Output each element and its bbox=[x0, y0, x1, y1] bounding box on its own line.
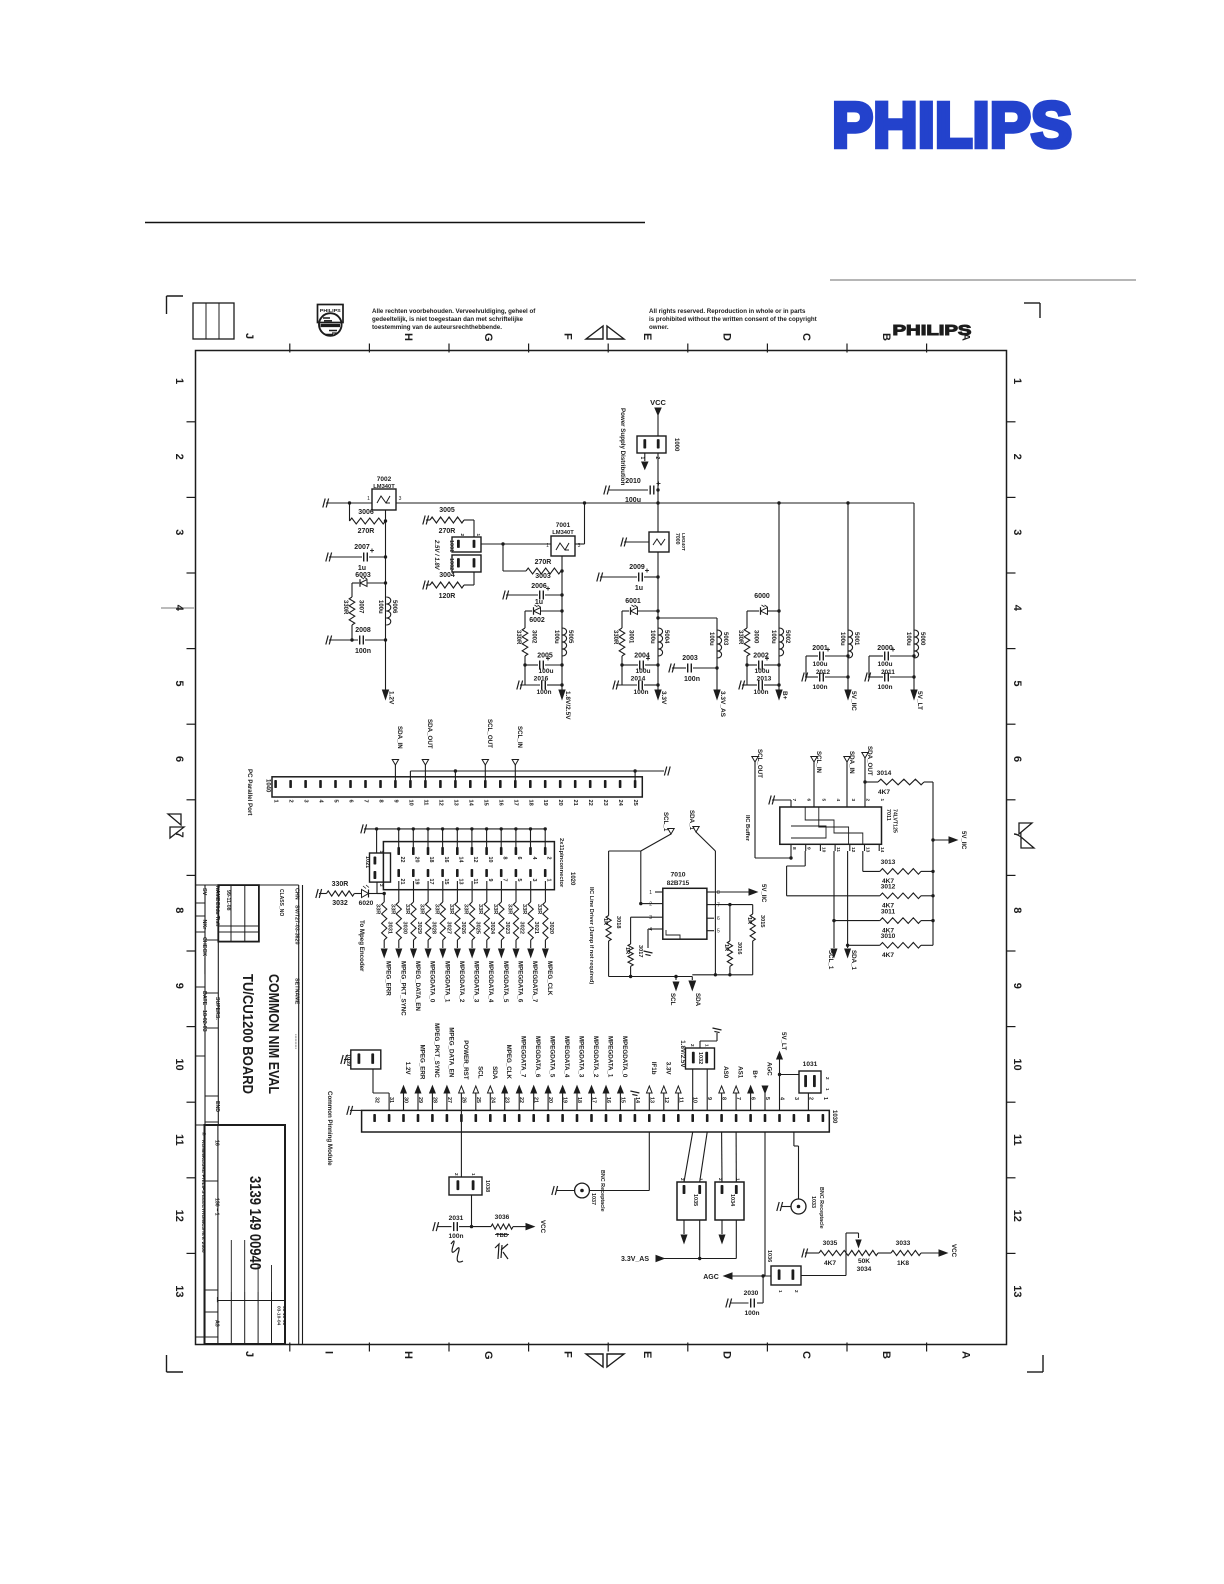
wire pin3 to 3017 bbox=[631, 917, 655, 944]
resistor 3021 bbox=[521, 881, 539, 940]
svg-text:7001: 7001 bbox=[556, 522, 571, 529]
svg-text:12: 12 bbox=[850, 847, 856, 853]
wire VCC column bbox=[656, 453, 659, 532]
svg-text:6001: 6001 bbox=[625, 598, 641, 605]
resistor 3012 bbox=[787, 884, 933, 910]
svg-text:1: 1 bbox=[545, 879, 551, 882]
svg-text:1u: 1u bbox=[358, 565, 366, 572]
regulator 7002 bbox=[367, 476, 402, 510]
svg-text:7010: 7010 bbox=[670, 872, 685, 879]
title block outline bbox=[196, 885, 303, 1345]
resistor 3018 bbox=[602, 916, 621, 977]
label PC Parallel Port bbox=[246, 769, 253, 815]
svg-text:MPEGDATA_2: MPEGDATA_2 bbox=[592, 1036, 599, 1078]
svg-text:NKr: NKr bbox=[201, 920, 207, 931]
svg-text:1: 1 bbox=[705, 1044, 710, 1047]
resistor 3022 bbox=[507, 881, 525, 940]
fiducial bottom-right bbox=[1027, 1355, 1043, 1372]
svg-text:1: 1 bbox=[273, 800, 279, 803]
svg-text:7: 7 bbox=[717, 903, 720, 909]
svg-text:8: 8 bbox=[173, 907, 185, 913]
svg-text:6: 6 bbox=[806, 799, 812, 802]
svg-text:SDA: SDA bbox=[694, 993, 701, 1007]
svg-text:18: 18 bbox=[527, 800, 533, 806]
node 3.3V output bbox=[655, 690, 667, 705]
svg-text:3001: 3001 bbox=[628, 630, 634, 644]
svg-text:100u: 100u bbox=[377, 600, 383, 614]
svg-text:MPEG_DATA_EN: MPEG_DATA_EN bbox=[414, 961, 421, 1011]
svg-text:1u: 1u bbox=[635, 585, 643, 592]
svg-text:1.8V/2.5V: 1.8V/2.5V bbox=[564, 691, 571, 720]
label CHN number bbox=[294, 888, 300, 945]
svg-text:3: 3 bbox=[850, 799, 856, 802]
svg-text:MPEG_CLK: MPEG_CLK bbox=[546, 961, 553, 996]
svg-text:1R: 1R bbox=[624, 947, 630, 954]
node 5V_LT pin4 bbox=[777, 1032, 787, 1110]
node MPEGDATA_6 bbox=[513, 940, 523, 1003]
node SCL_1 flag bbox=[639, 812, 674, 905]
svg-text:33R: 33R bbox=[536, 904, 542, 914]
inductor 5002 bbox=[770, 628, 790, 656]
inductor 5001 bbox=[839, 630, 859, 658]
handwritten 1K2 bbox=[495, 1244, 508, 1259]
wire pin13 to BNC 1037 bbox=[589, 1132, 649, 1191]
svg-text:2: 2 bbox=[173, 454, 185, 460]
svg-text:2005: 2005 bbox=[537, 653, 553, 660]
svg-text:33R: 33R bbox=[521, 904, 527, 914]
node AS1 pin7 bbox=[733, 1066, 743, 1110]
svg-text:MPEGDATA_4: MPEGDATA_4 bbox=[563, 1036, 570, 1078]
ground rail above 1020 bbox=[361, 824, 545, 833]
svg-text:1R: 1R bbox=[723, 944, 729, 951]
svg-text:8: 8 bbox=[501, 857, 507, 860]
svg-text:3017: 3017 bbox=[637, 945, 643, 957]
svg-text:2002: 2002 bbox=[753, 653, 769, 660]
svg-text:100n: 100n bbox=[355, 648, 371, 655]
svg-text:1031: 1031 bbox=[803, 1061, 818, 1068]
border row numbers left bbox=[173, 378, 185, 1297]
wire pin13 to 3013 bbox=[862, 851, 864, 871]
fiducial top-left bbox=[167, 296, 184, 314]
node VCC bbox=[650, 398, 666, 436]
svg-text:4: 4 bbox=[649, 927, 652, 933]
fiducial bottom-left bbox=[167, 1355, 184, 1372]
wire 5V_IIC column bbox=[846, 501, 849, 690]
svg-text:5004: 5004 bbox=[663, 630, 669, 644]
svg-text:10: 10 bbox=[407, 800, 413, 806]
svg-text:F: F bbox=[561, 1351, 573, 1358]
resistor 3026 bbox=[448, 881, 466, 940]
svg-text:3021: 3021 bbox=[533, 922, 539, 934]
svg-text:33R: 33R bbox=[375, 904, 381, 914]
svg-text:DATE: DATE bbox=[201, 991, 207, 1006]
svg-text:MPEGDATA_0: MPEGDATA_0 bbox=[621, 1036, 628, 1078]
resistor 3002 bbox=[515, 628, 537, 685]
svg-text:SCL_IN: SCL_IN bbox=[516, 726, 523, 749]
node 5V_IIC output bbox=[845, 690, 857, 711]
node AGC pin5 bbox=[762, 1062, 772, 1110]
svg-text:33R: 33R bbox=[389, 904, 395, 914]
svg-text:END: END bbox=[214, 1101, 220, 1112]
svg-text:3010: 3010 bbox=[881, 933, 896, 940]
svg-text:7002: 7002 bbox=[377, 476, 392, 483]
revision triangles right border bbox=[1019, 823, 1034, 848]
svg-text:D: D bbox=[721, 1351, 733, 1359]
node MPEGDATA_5 pin20 bbox=[545, 1036, 555, 1110]
svg-text:PHILIPS: PHILIPS bbox=[832, 89, 1072, 161]
svg-text:2003: 2003 bbox=[682, 655, 698, 662]
svg-text:SDA_1: SDA_1 bbox=[850, 950, 857, 971]
svg-text:3: 3 bbox=[649, 915, 652, 921]
svg-text:3013: 3013 bbox=[881, 859, 896, 866]
svg-text:I: I bbox=[323, 1351, 335, 1354]
svg-text:5: 5 bbox=[516, 879, 522, 882]
copyright Koninklijke bbox=[200, 1132, 207, 1253]
svg-text:1: 1 bbox=[699, 1178, 704, 1181]
svg-text:SDA_OUT: SDA_OUT bbox=[426, 719, 433, 749]
svg-text:5003: 5003 bbox=[722, 632, 728, 646]
node MPEGDATA_7 bbox=[528, 940, 538, 1003]
svg-text:3: 3 bbox=[173, 529, 185, 535]
node SDA_IN parallel bbox=[392, 726, 403, 780]
capacitor 2000 bbox=[869, 645, 914, 668]
connector 1034 bbox=[715, 1132, 744, 1220]
schematic border frame bbox=[196, 351, 1007, 1345]
node 1.8V/2.5V pin11 bbox=[676, 1040, 686, 1110]
svg-text:SCL_OUT: SCL_OUT bbox=[486, 719, 493, 748]
connector 1020 bbox=[383, 842, 554, 890]
svg-text:G: G bbox=[482, 333, 494, 342]
svg-text:22: 22 bbox=[399, 857, 405, 863]
svg-text:3028: 3028 bbox=[431, 922, 437, 934]
svg-text:6000: 6000 bbox=[754, 593, 770, 600]
svg-text:11: 11 bbox=[472, 879, 478, 885]
svg-text:SCL_1: SCL_1 bbox=[827, 950, 834, 970]
svg-text:1R: 1R bbox=[746, 917, 752, 924]
svg-text:Common Pinning Module: Common Pinning Module bbox=[326, 1091, 333, 1166]
svg-text:5002: 5002 bbox=[784, 630, 790, 644]
svg-text:3.3V_AS: 3.3V_AS bbox=[621, 1256, 649, 1263]
svg-text:MPEGDATA_2: MPEGDATA_2 bbox=[458, 961, 465, 1003]
capacitor 2016 bbox=[517, 676, 562, 697]
svg-text:20: 20 bbox=[414, 857, 420, 863]
svg-text:6: 6 bbox=[1011, 756, 1023, 762]
wire rail drops to 1020 top pins bbox=[375, 827, 547, 853]
svg-text:13: 13 bbox=[1011, 1285, 1023, 1297]
node SCL_1 down bbox=[827, 949, 837, 970]
svg-text:5V_LT: 5V_LT bbox=[916, 691, 923, 710]
resistor 3017 bbox=[624, 944, 643, 977]
svg-text:SCL_OUT: SCL_OUT bbox=[756, 749, 763, 778]
svg-text:3.3V: 3.3V bbox=[660, 691, 667, 705]
svg-text:5V_IIC: 5V_IIC bbox=[850, 691, 857, 711]
svg-text:100u: 100u bbox=[770, 630, 776, 644]
capacitor 2006 bbox=[503, 583, 562, 606]
svg-text:4: 4 bbox=[173, 605, 185, 612]
node SDA pin24 bbox=[488, 1066, 498, 1110]
svg-text:18-02-03: 18-02-03 bbox=[201, 1010, 207, 1032]
svg-text:———: ——— bbox=[201, 958, 207, 975]
svg-text:10: 10 bbox=[820, 847, 826, 853]
svg-text:2009: 2009 bbox=[629, 564, 645, 571]
svg-text:2: 2 bbox=[654, 457, 660, 460]
ground parallel port bbox=[664, 767, 670, 776]
connector 1030 bbox=[362, 1097, 837, 1132]
svg-text:19: 19 bbox=[542, 800, 548, 806]
svg-text:BNC Receptacle: BNC Receptacle bbox=[818, 1187, 824, 1229]
svg-text:2x11pinconnector: 2x11pinconnector bbox=[558, 838, 564, 888]
svg-text:13: 13 bbox=[173, 1285, 185, 1297]
title text COMMON NIM EVAL bbox=[265, 974, 281, 1094]
svg-text:11: 11 bbox=[835, 847, 841, 852]
svg-text:5: 5 bbox=[333, 800, 339, 803]
capacitor 2030 bbox=[730, 1276, 763, 1317]
svg-text:2010: 2010 bbox=[625, 478, 641, 485]
svg-text:33R: 33R bbox=[404, 904, 410, 914]
svg-text:21: 21 bbox=[399, 879, 405, 885]
svg-text:2012: 2012 bbox=[816, 669, 831, 676]
svg-text:3004: 3004 bbox=[439, 572, 455, 579]
node 1.2V output bbox=[383, 690, 395, 705]
svg-text:MPEG_ERR: MPEG_ERR bbox=[419, 1045, 426, 1080]
bnc receptacle 1033 bbox=[781, 1187, 824, 1229]
Philips shield emblem bbox=[318, 305, 344, 336]
wire 7001 input from bus bbox=[575, 501, 586, 544]
faint gray line top right bbox=[830, 279, 1136, 281]
svg-text:100n: 100n bbox=[753, 689, 768, 696]
wire 5V_LT column bbox=[912, 503, 915, 690]
copyright text dutch bbox=[372, 308, 536, 331]
svg-text:SV: SV bbox=[201, 888, 207, 896]
svg-text:3034: 3034 bbox=[857, 1266, 872, 1273]
svg-text:3018: 3018 bbox=[615, 916, 621, 928]
svg-text:MPEGDATA_0: MPEGDATA_0 bbox=[429, 961, 436, 1003]
svg-text:PHILIPS: PHILIPS bbox=[893, 322, 972, 339]
svg-text:50K: 50K bbox=[858, 1258, 870, 1265]
svg-text:6: 6 bbox=[348, 800, 354, 803]
svg-text:5: 5 bbox=[1011, 680, 1023, 686]
wire AGC from pin5 bbox=[764, 1132, 766, 1276]
svg-text:1: 1 bbox=[879, 799, 885, 802]
svg-text:VCC: VCC bbox=[950, 1244, 957, 1258]
svg-text:1035: 1035 bbox=[692, 1194, 698, 1206]
Philips wordmark small header bbox=[893, 322, 972, 339]
svg-text:SDA: SDA bbox=[491, 1066, 498, 1080]
revision table bottom bbox=[218, 1240, 287, 1344]
svg-text:3033: 3033 bbox=[896, 1240, 911, 1247]
svg-text:IF1b: IF1b bbox=[650, 1062, 657, 1075]
svg-text:20: 20 bbox=[557, 800, 563, 806]
svg-text:AS0: AS0 bbox=[722, 1066, 729, 1079]
svg-text:2: 2 bbox=[288, 800, 294, 803]
node SDA_OUT parallel bbox=[422, 719, 433, 780]
svg-text:100u: 100u bbox=[635, 668, 650, 675]
svg-text:3005: 3005 bbox=[439, 507, 455, 514]
wire pin2 to 3018 bbox=[609, 851, 655, 916]
svg-text:130 − 1: 130 − 1 bbox=[214, 1198, 220, 1216]
node B+ pin6 bbox=[748, 1070, 758, 1110]
capacitor 2008 bbox=[326, 627, 386, 655]
svg-text:8: 8 bbox=[717, 890, 720, 896]
svg-text:33R: 33R bbox=[433, 904, 439, 914]
text 3139 149 00940 bbox=[246, 1176, 263, 1270]
node POWER_RST pin26 bbox=[459, 1040, 469, 1110]
wire 4K7 rail bbox=[931, 782, 934, 945]
svg-text:1040: 1040 bbox=[265, 779, 271, 793]
ground 1030 pin14 bbox=[630, 1091, 639, 1110]
svg-text:3035: 3035 bbox=[823, 1240, 838, 1247]
svg-text:03-10-04: 03-10-04 bbox=[276, 1306, 282, 1326]
svg-text:3.3V_AS: 3.3V_AS bbox=[719, 691, 726, 718]
node MPEGDATA_6 pin21 bbox=[531, 1036, 541, 1110]
svg-text:5V_IIC: 5V_IIC bbox=[760, 884, 766, 903]
svg-text:SV/T27-03-3620: SV/T27-03-3620 bbox=[294, 905, 300, 945]
connector 1035 bbox=[677, 1132, 707, 1220]
node SCL down bbox=[669, 977, 679, 1006]
node MPEGDATA_1 bbox=[440, 940, 450, 1003]
capacitor 2005 bbox=[525, 653, 562, 676]
resistor 3030 bbox=[389, 881, 407, 940]
wire SCL_1 net vertical bbox=[832, 851, 835, 948]
svg-text:2000: 2000 bbox=[877, 645, 893, 652]
svg-text:3031: 3031 bbox=[387, 922, 393, 934]
resistor 3014 bbox=[865, 770, 933, 796]
node 3.3V pin12 bbox=[661, 1062, 671, 1111]
svg-text:4: 4 bbox=[531, 857, 537, 860]
svg-text:2001: 2001 bbox=[812, 645, 828, 652]
svg-text:3030: 3030 bbox=[401, 922, 407, 934]
svg-text:F: F bbox=[561, 333, 573, 340]
svg-text:2004: 2004 bbox=[634, 653, 650, 660]
node MPEGDATA_3 bbox=[469, 940, 479, 1003]
svg-text:MPEGDATA_1: MPEGDATA_1 bbox=[607, 1036, 614, 1078]
resistor 3000 bbox=[737, 628, 759, 685]
svg-text:3029: 3029 bbox=[416, 922, 422, 934]
svg-text:14: 14 bbox=[879, 847, 885, 853]
wire main supply bus bbox=[326, 502, 914, 504]
svg-text:22: 22 bbox=[587, 800, 593, 806]
node SCL pin25 bbox=[473, 1066, 483, 1110]
svg-text:3011: 3011 bbox=[881, 908, 896, 915]
svg-text:3025: 3025 bbox=[475, 922, 481, 934]
connector 1038 bbox=[449, 1173, 490, 1195]
resistor 3029 bbox=[404, 881, 422, 940]
svg-text:COMMON NIM EVAL: COMMON NIM EVAL bbox=[265, 974, 281, 1094]
ic 7011 74LVT125 bbox=[780, 799, 898, 853]
svg-text:100u: 100u bbox=[812, 661, 827, 668]
svg-text:MPEG_ERR: MPEG_ERR bbox=[385, 961, 392, 996]
svg-text:B: B bbox=[880, 1351, 892, 1359]
node SDA_OUT buffer bbox=[862, 746, 873, 807]
svg-text:11: 11 bbox=[1011, 1134, 1023, 1146]
led 6020 bbox=[359, 885, 386, 907]
svg-text:5V_LT: 5V_LT bbox=[780, 1032, 787, 1050]
svg-text:5V_IIC: 5V_IIC bbox=[960, 831, 966, 850]
svg-text:3012: 3012 bbox=[881, 884, 896, 891]
zener 6003 bbox=[352, 572, 386, 597]
svg-text:B+: B+ bbox=[751, 1070, 758, 1078]
svg-text:16: 16 bbox=[497, 800, 503, 806]
svg-text:23: 23 bbox=[602, 800, 608, 806]
svg-text:SCL: SCL bbox=[476, 1066, 483, 1079]
node SDA down bbox=[689, 977, 701, 1007]
svg-text:C: C bbox=[800, 333, 812, 341]
handwritten note uF bbox=[451, 1241, 463, 1262]
svg-text:270R: 270R bbox=[358, 528, 375, 535]
node 5V_IIC buffer bbox=[933, 831, 966, 850]
svg-text:B+: B+ bbox=[781, 691, 788, 700]
svg-text:1.8V/2.5V: 1.8V/2.5V bbox=[679, 1040, 686, 1068]
wire-end 2030 bbox=[726, 1299, 732, 1308]
svg-text:TU/CU1200 BOARD: TU/CU1200 BOARD bbox=[239, 974, 255, 1094]
svg-text:3: 3 bbox=[793, 1097, 799, 1100]
svg-text:330R: 330R bbox=[332, 881, 349, 888]
svg-text:3: 3 bbox=[531, 879, 537, 882]
svg-text:1: 1 bbox=[173, 378, 185, 384]
svg-text:1: 1 bbox=[649, 890, 652, 896]
svg-text:MPEGDATA_3: MPEGDATA_3 bbox=[578, 1036, 585, 1078]
svg-text:4K7: 4K7 bbox=[882, 952, 894, 959]
svg-text:11: 11 bbox=[173, 1134, 185, 1146]
node MPEGDATA_3 pin18 bbox=[574, 1036, 584, 1110]
node MPEGDATA_1 pin16 bbox=[603, 1036, 613, 1110]
capacitor 2004 bbox=[622, 653, 658, 676]
node MPEGDATA_4 bbox=[484, 940, 494, 1003]
svg-text:3026: 3026 bbox=[460, 922, 466, 934]
node 1.2V pin30 bbox=[401, 1062, 411, 1111]
svg-text:..........: .......... bbox=[294, 1034, 300, 1049]
svg-text:6020: 6020 bbox=[359, 900, 374, 907]
svg-text:2: 2 bbox=[865, 799, 871, 802]
svg-text:SDA_1: SDA_1 bbox=[688, 810, 695, 831]
svg-text:100u: 100u bbox=[754, 668, 769, 675]
inductor 5004 bbox=[649, 628, 669, 656]
svg-text:1032: 1032 bbox=[697, 1052, 703, 1064]
svg-text:MPEGDATA_4: MPEGDATA_4 bbox=[487, 961, 494, 1003]
node MPEG_PKT_SYNC pin28 bbox=[430, 1023, 440, 1110]
svg-text:VCC: VCC bbox=[539, 1220, 546, 1234]
capacitor 2012 bbox=[802, 656, 848, 691]
svg-text:3007: 3007 bbox=[358, 600, 364, 614]
node AGC bottom bbox=[703, 1273, 771, 1281]
label To Mpeg Encoder bbox=[358, 920, 365, 972]
svg-text:Alle rechten voorbehouden. Ver: Alle rechten voorbehouden. Verveelvuldig… bbox=[372, 308, 536, 315]
codenumber cells bbox=[205, 1140, 220, 1327]
resistor 3010 bbox=[848, 933, 933, 959]
connector 1039 bbox=[345, 1050, 381, 1069]
svg-text:1.2V: 1.2V bbox=[388, 691, 395, 705]
svg-text:POWER_RST: POWER_RST bbox=[462, 1040, 469, 1079]
svg-text:2: 2 bbox=[545, 857, 551, 860]
svg-text:1001: 1001 bbox=[448, 540, 454, 552]
capacitor 2009 bbox=[597, 564, 658, 592]
svg-text:4: 4 bbox=[1011, 605, 1023, 612]
svg-text:J: J bbox=[243, 333, 255, 339]
regulator 7001 bbox=[546, 522, 581, 556]
resistor 3004 bbox=[423, 572, 474, 600]
revision triangles header bbox=[586, 326, 624, 339]
node MPEG_PKT_SYNC bbox=[396, 940, 406, 1016]
node AS0 pin8 bbox=[719, 1066, 729, 1110]
svg-text:2031: 2031 bbox=[449, 1215, 464, 1222]
resistor 3033 bbox=[878, 1240, 940, 1267]
svg-text:100u: 100u bbox=[839, 632, 845, 646]
svg-text:3006: 3006 bbox=[358, 509, 374, 516]
svg-text:E: E bbox=[641, 333, 653, 340]
node SDA_1 flag bbox=[688, 810, 715, 905]
svg-text:13: 13 bbox=[452, 800, 458, 806]
svg-text:1: 1 bbox=[822, 1097, 828, 1100]
